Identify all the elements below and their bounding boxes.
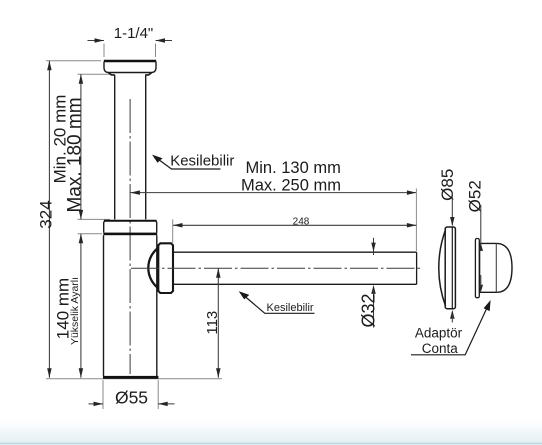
rosette dome arc <box>439 230 446 307</box>
svg-text:Max. 180 mm: Max. 180 mm <box>64 97 85 212</box>
dimension right extension line <box>415 189 417 252</box>
horizontal pipe bottom wall <box>174 283 417 285</box>
dimension diameter52 top arrow <box>479 243 484 251</box>
dimension Min20/Max180 line <box>80 74 82 219</box>
dimension 324 extension lines <box>46 61 222 379</box>
svg-text:Min. 130 mm: Min. 130 mm <box>246 159 341 177</box>
dimension 1-1/4" lines and arrows <box>88 40 173 42</box>
svg-text:Yükselik Ayarlı: Yükselik Ayarlı <box>69 277 81 345</box>
body bottom thick edge <box>103 376 158 379</box>
label Kesilebilir upper arrowhead <box>152 155 163 163</box>
label Adaptor Conta arrowhead <box>484 300 491 311</box>
bottom panel border line <box>0 443 542 445</box>
dimension 113 line <box>217 268 219 378</box>
label Kesilebilir lower arrowhead <box>239 291 250 299</box>
outlet dome arc <box>148 248 157 288</box>
label diameter32 leader bottom <box>373 290 375 328</box>
adapter dome <box>480 243 512 292</box>
dimension Ø55 arrows <box>94 402 104 407</box>
dimension diameter52 leader top <box>480 205 482 251</box>
cap nut shoulder <box>109 73 152 75</box>
svg-text:113: 113 <box>204 311 221 335</box>
label Kesilebilir lower underline and leader <box>242 294 315 314</box>
dimension 113 arrows <box>216 268 221 278</box>
svg-text:Kesilebilir: Kesilebilir <box>170 152 234 169</box>
outlet nut <box>158 243 173 293</box>
horizontal pipe top wall <box>174 251 417 253</box>
dimension diameter85 bottom arrow <box>450 310 455 319</box>
dimension Ø55 extension lines <box>103 380 158 409</box>
body right wall <box>156 235 158 376</box>
label diameter32 top arrow <box>371 243 376 252</box>
bottom panel fade <box>0 420 542 445</box>
dimension 324 arrows <box>47 61 52 70</box>
dimension 140mm arrows <box>79 234 84 244</box>
body left wall <box>103 235 105 376</box>
cap nut outline <box>104 62 156 73</box>
label Kesilebilir upper underline and leader <box>155 157 221 170</box>
svg-text:248: 248 <box>293 217 310 228</box>
dimension Min130/Max250 arrows <box>130 190 140 195</box>
horizontal centerline <box>131 267 420 269</box>
dimension Ø55 lines <box>89 403 175 405</box>
vertical centerline <box>129 99 131 374</box>
rosette inner line <box>451 227 453 308</box>
label diameter32 leader top <box>373 238 375 255</box>
dimension 140mm extension line <box>78 233 103 235</box>
dimension Min20/Max180 extension lines <box>78 74 112 219</box>
svg-text:Ø32: Ø32 <box>359 293 379 327</box>
dimension 1-1/4" extension lines <box>104 44 156 58</box>
rosette outline <box>445 227 455 309</box>
adapter flange <box>475 239 479 298</box>
svg-text:Conta: Conta <box>422 341 459 356</box>
svg-text:1-1/4": 1-1/4" <box>114 25 154 42</box>
dimension diameter52 leader bottom <box>480 275 482 287</box>
dimension 324 line <box>48 61 50 378</box>
svg-text:Ø52: Ø52 <box>465 180 484 212</box>
svg-text:Max. 250 mm: Max. 250 mm <box>241 177 341 195</box>
svg-text:324: 324 <box>37 200 56 228</box>
dimension diameter85 top arrow <box>450 217 455 226</box>
body top nut <box>104 221 157 233</box>
dimension 248 arrows <box>173 223 183 228</box>
dimension Min20/Max180 arrows <box>79 74 84 84</box>
dimension diameter85 leader top <box>451 194 453 226</box>
label diameter32 bottom arrow <box>371 285 376 294</box>
cap nut top thick edge <box>104 60 156 62</box>
svg-text:Ø85: Ø85 <box>438 169 457 201</box>
adapter dome tangent line <box>495 243 497 292</box>
dimension 248 line <box>173 224 416 226</box>
dimension diameter85 leader bottom <box>451 314 453 323</box>
svg-text:Kesilebilir: Kesilebilir <box>267 302 314 314</box>
inlet pipe right wall <box>145 75 147 220</box>
body top nut top thick edge <box>104 220 157 222</box>
body top nut bottom thick edge <box>103 233 157 236</box>
horizontal pipe end <box>416 252 418 284</box>
dimension diameter52 bottom arrow <box>479 285 484 293</box>
label Adaptor Conta underline and leader <box>411 304 489 355</box>
dimension Min130/Max250 line <box>130 192 416 194</box>
dimension 140mm line <box>80 234 82 378</box>
dimension 248 left extension line <box>172 219 174 243</box>
svg-text:Ø55: Ø55 <box>115 387 148 407</box>
inlet pipe left wall <box>114 75 116 220</box>
svg-text:Adaptör: Adaptör <box>415 325 463 340</box>
